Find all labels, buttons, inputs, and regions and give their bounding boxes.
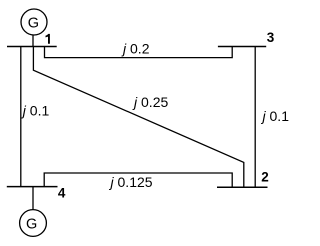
- svg-text:3: 3: [267, 30, 275, 45]
- svg-text:4: 4: [58, 186, 66, 201]
- svg-text:j 0.25: j 0.25: [132, 94, 168, 110]
- svg-text:j 0.1: j 0.1: [261, 108, 290, 124]
- svg-text:2: 2: [261, 169, 269, 184]
- svg-text:G: G: [26, 216, 37, 232]
- svg-text:j 0.125: j 0.125: [109, 174, 153, 190]
- svg-text:j 0.2: j 0.2: [121, 40, 150, 56]
- svg-text:j 0.1: j 0.1: [21, 103, 50, 119]
- svg-text:G: G: [28, 16, 39, 32]
